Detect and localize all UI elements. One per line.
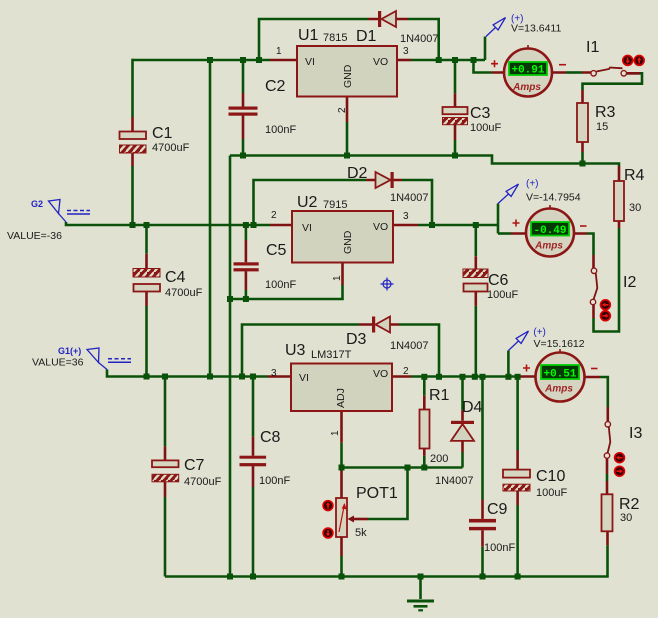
capacitor C3 100uF electrolytic — [443, 105, 502, 134]
svg-text:3: 3 — [403, 211, 409, 222]
wire ground rail y=576.5 — [165, 545, 608, 576]
wire U2 gnd rail y=299 — [230, 285, 343, 299]
svg-text:R1: R1 — [429, 387, 450, 404]
capacitor C2 100nF — [229, 78, 297, 136]
pin I1 leads — [582, 71, 640, 74]
pin U2 GND 1 — [341, 263, 344, 286]
capacitor C10 100uF electrolytic — [503, 468, 567, 499]
pin C7 leads — [164, 446, 167, 497]
svg-text:(+): (+) — [526, 179, 539, 190]
wire C2 top stub — [242, 60, 245, 93]
svg-text:4700uF: 4700uF — [184, 476, 222, 488]
svg-text:Amps: Amps — [534, 241, 563, 252]
svg-text:100uF: 100uF — [470, 122, 501, 134]
svg-text:C5: C5 — [266, 242, 287, 259]
wire C3 column lower — [454, 140, 457, 156]
svg-text:ADJ: ADJ — [335, 388, 347, 408]
pin U3 VO 2 — [392, 375, 411, 378]
wire C9 column lower — [481, 547, 484, 577]
resistor R2 30 — [602, 494, 640, 531]
wire C1 column lower — [131, 166, 134, 225]
svg-text:R3: R3 — [595, 104, 616, 121]
wire A2 plus side — [498, 232, 511, 235]
wire C10 column lower — [516, 505, 519, 577]
svg-text:VI: VI — [299, 372, 309, 384]
svg-text:R2: R2 — [619, 496, 640, 513]
wire A3 minus to I3 — [600, 377, 608, 407]
wire C9 column upper — [481, 379, 484, 500]
resistor R1 200 — [420, 387, 450, 465]
svg-text:POT1: POT1 — [356, 485, 398, 502]
regulator U1 7815 body — [276, 27, 409, 113]
pin U1 VO 3 — [397, 59, 411, 62]
wire G1 input rail y=376.5 — [107, 370, 268, 377]
node junctions y=225 — [130, 222, 136, 228]
origin marker — [381, 278, 394, 291]
svg-text:+0.51: +0.51 — [543, 368, 576, 380]
svg-text:VI: VI — [305, 56, 315, 68]
svg-text:LM317T: LM317T — [311, 349, 352, 361]
wire C1 top stub — [131, 59, 134, 117]
wire U3 output node y=376.5 — [411, 375, 520, 378]
wire I3 to R2 gap — [606, 474, 609, 481]
pin D1 leads — [368, 18, 408, 21]
pin R3 leads — [581, 90, 584, 152]
wire probe1 stem — [484, 37, 487, 61]
svg-text:U1: U1 — [298, 27, 319, 44]
wire C7 column upper — [164, 377, 167, 447]
capacitor C5 100nF — [234, 242, 297, 291]
diode D1 1N4007 — [356, 11, 439, 45]
pin A2 leads — [511, 232, 587, 235]
svg-text:VI: VI — [302, 222, 312, 234]
wire C7 column lower to rail — [164, 497, 167, 577]
svg-text:1N4007: 1N4007 — [390, 192, 429, 204]
pin I3 leads — [606, 407, 609, 474]
wire D2 right column — [402, 180, 432, 225]
svg-text:VALUE=-36: VALUE=-36 — [7, 230, 62, 242]
ammeter A3 — [523, 349, 598, 402]
pin C8 leads — [252, 437, 255, 487]
wire C8 column upper — [252, 377, 255, 437]
svg-text:VO: VO — [373, 368, 388, 380]
wire ADJ node y=467.5 — [342, 466, 463, 469]
svg-text:C4: C4 — [165, 269, 186, 286]
switch I2 — [590, 268, 636, 321]
svg-text:D1: D1 — [356, 28, 377, 45]
wire +36V input rail y=60 — [133, 59, 271, 62]
svg-text:3: 3 — [271, 368, 277, 379]
svg-text:C2: C2 — [265, 78, 286, 95]
capacitor C8 100nF — [240, 429, 291, 487]
resistor R4 30 — [614, 167, 645, 221]
capacitor C4 4700uF electrolytic — [133, 269, 203, 300]
pin D2 leads — [366, 179, 402, 182]
wire D1 right branch — [408, 19, 439, 60]
svg-text:Amps: Amps — [544, 384, 573, 395]
pin C1 leads — [131, 117, 134, 166]
pin D4 leads — [461, 410, 464, 452]
svg-text:C1: C1 — [152, 125, 173, 142]
svg-text:1N4007: 1N4007 — [390, 340, 429, 352]
pin C10 leads — [516, 450, 519, 505]
svg-text:2: 2 — [403, 366, 409, 377]
wire G2 input rail y=225 — [66, 222, 270, 225]
wire C2 column lower — [242, 139, 245, 156]
svg-text:U2: U2 — [297, 194, 318, 211]
svg-text:100uF: 100uF — [536, 487, 567, 499]
svg-text:I3: I3 — [629, 425, 642, 442]
wire C4 column upper — [145, 225, 148, 254]
svg-text:100nF: 100nF — [259, 475, 290, 487]
wire C5 column upper — [245, 225, 248, 240]
svg-text:1N4007: 1N4007 — [400, 33, 439, 45]
svg-text:C3: C3 — [470, 105, 491, 122]
pin C3 leads — [454, 93, 457, 140]
wire R3 bottom — [581, 152, 584, 164]
wire probe3 stem — [507, 351, 510, 377]
svg-text:4700uF: 4700uF — [165, 287, 203, 299]
svg-text:2: 2 — [337, 107, 348, 113]
node junctions ground rail y=576.5 — [227, 574, 233, 580]
svg-text:C8: C8 — [260, 429, 281, 446]
svg-text:1: 1 — [330, 430, 341, 436]
wire D3 right column — [399, 325, 439, 377]
svg-text:5k: 5k — [355, 527, 367, 539]
wire U1 GND pin lower — [346, 122, 349, 156]
pin C9 leads — [481, 500, 484, 547]
svg-text:C9: C9 — [487, 501, 508, 518]
svg-text:1: 1 — [332, 275, 343, 281]
svg-text:G2: G2 — [31, 199, 43, 209]
svg-text:7815: 7815 — [323, 32, 347, 44]
node junctions y=376.5 — [144, 374, 150, 380]
wire D4 column lower — [461, 452, 464, 468]
svg-text:D4: D4 — [462, 399, 483, 416]
svg-text:30: 30 — [620, 512, 632, 524]
svg-text:(+): (+) — [533, 327, 546, 338]
capacitor C7 4700uF electrolytic — [152, 457, 222, 488]
ground symbol — [407, 601, 434, 610]
dc generator G1 — [32, 346, 131, 370]
wire R4 bottom to I2 — [594, 228, 620, 332]
svg-text:15: 15 — [596, 121, 608, 133]
wire D4 column upper — [461, 377, 464, 411]
pin U1 VI 1 — [270, 59, 297, 62]
svg-text:D3: D3 — [346, 331, 367, 348]
pin C2 leads — [242, 93, 245, 139]
svg-text:2: 2 — [271, 210, 277, 221]
wire D1 left branch — [259, 19, 368, 60]
svg-text:4700uF: 4700uF — [152, 142, 190, 154]
wire U1 output node y=60 — [411, 59, 485, 62]
svg-text:+0.91: +0.91 — [511, 65, 544, 77]
wire C8 column lower — [252, 487, 255, 577]
pin U1 GND 2 — [346, 97, 349, 123]
wire I2 top to A2 — [587, 234, 594, 256]
svg-text:U3: U3 — [285, 342, 306, 359]
capacitor C9 100nF — [469, 501, 515, 554]
svg-text:GND: GND — [342, 230, 354, 254]
wire C6 column lower — [474, 306, 477, 377]
pin R1 leads — [423, 396, 426, 456]
svg-text:I2: I2 — [623, 274, 636, 291]
svg-text:VALUE=36: VALUE=36 — [32, 357, 84, 369]
PINS (dark red) — [133, 19, 640, 556]
wire into ammeter A1 — [474, 60, 492, 73]
voltage probe 3 — [508, 327, 584, 351]
svg-text:30: 30 — [629, 202, 641, 214]
wire C4 column lower — [145, 306, 148, 377]
wire R1 column upper — [423, 377, 426, 396]
wire A1 switch to R3 — [566, 71, 582, 74]
voltage probe 2 — [498, 179, 581, 204]
svg-text:VO: VO — [373, 221, 388, 233]
wire x=210 rail (+36V down to G1 line) — [209, 60, 212, 377]
pin POT1 leads — [340, 470, 343, 556]
pin U3 ADJ 1 — [340, 411, 343, 443]
wire C10 column upper — [516, 379, 519, 450]
wire ground symbol stem — [419, 577, 422, 600]
regulator U3 LM317T body — [271, 342, 409, 436]
pin C4 leads — [145, 254, 148, 306]
svg-text:V=13.6411: V=13.6411 — [511, 23, 561, 35]
node junctions y=467.5 — [339, 465, 345, 471]
wire U3 ADJ pin lower — [340, 443, 343, 470]
svg-text:1N4007: 1N4007 — [435, 475, 474, 487]
diode D2 1N4007 — [347, 165, 429, 204]
diode D3 1N4007 — [346, 317, 429, 353]
svg-text:VO: VO — [373, 56, 388, 68]
pin A1 leads — [492, 71, 567, 74]
pin POT1 wiper lead — [353, 518, 368, 521]
wire POT1 wiper run — [368, 468, 408, 520]
wire x=230 rail (mid to ground) — [229, 156, 232, 577]
svg-text:100uF: 100uF — [487, 289, 518, 301]
pin R4 leads — [618, 166, 621, 228]
pin U3 VI 3 — [268, 375, 292, 378]
svg-text:1: 1 — [276, 46, 282, 57]
svg-text:200: 200 — [430, 453, 448, 465]
pin C5 leads — [245, 240, 248, 290]
wire I1 to R3 top — [583, 73, 643, 90]
wire POT1 bottom to rail — [340, 556, 343, 577]
node junctions y=299 — [227, 296, 233, 302]
pin C6 leads — [474, 256, 477, 306]
capacitor C6 100uF electrolytic — [463, 269, 518, 301]
node junctions y=60 — [207, 57, 213, 63]
node junction R3 bottom — [580, 161, 586, 167]
wire C6 column upper — [474, 225, 477, 256]
potentiometer POT1 5k — [323, 485, 398, 539]
dc generator G2 — [7, 199, 90, 242]
svg-text:Amps: Amps — [512, 82, 541, 93]
switch I3 — [604, 422, 642, 477]
svg-text:V=15.1612: V=15.1612 — [534, 338, 585, 350]
svg-text:7915: 7915 — [323, 199, 347, 211]
pin I2 leads — [592, 255, 595, 318]
wire D2 left column — [254, 180, 367, 225]
svg-text:I1: I1 — [586, 39, 599, 56]
svg-text:C10: C10 — [536, 468, 565, 485]
wire C5 column lower — [245, 290, 248, 299]
svg-text:D2: D2 — [347, 165, 368, 182]
diode D4 1N4007 — [435, 399, 483, 487]
svg-text:C7: C7 — [184, 457, 205, 474]
svg-text:100nF: 100nF — [265, 124, 296, 136]
svg-text:R4: R4 — [624, 167, 645, 184]
svg-text:3: 3 — [403, 46, 409, 57]
svg-text:-0.49: -0.49 — [533, 225, 566, 237]
pin R2 leads — [606, 481, 609, 545]
wire R1 column lower — [423, 456, 426, 468]
ammeter A1 — [491, 45, 566, 97]
svg-text:100nF: 100nF — [265, 279, 296, 291]
capacitor C1 4700uF electrolytic — [120, 125, 190, 154]
regulator U2 7915 body — [271, 194, 409, 281]
pin A3 leads — [520, 375, 600, 378]
switch I1 — [586, 39, 644, 76]
svg-text:GND: GND — [342, 64, 354, 88]
svg-text:G1(+): G1(+) — [58, 346, 81, 356]
wire probe2 stem — [497, 204, 500, 234]
svg-text:C6: C6 — [488, 272, 509, 289]
wire U2 output node y=225 — [418, 224, 498, 227]
wire mid rail y=155.5 with jog — [230, 156, 619, 167]
wire D3 left column — [242, 325, 359, 377]
svg-text:100nF: 100nF — [484, 542, 515, 554]
pin D3 leads — [359, 323, 399, 326]
ammeter A2 — [513, 205, 587, 257]
wire C3 column upper — [454, 60, 457, 93]
node junctions y=155.5 — [240, 153, 246, 159]
resistor R3 15 — [577, 103, 616, 142]
pin U2 VI 2 — [270, 224, 292, 227]
svg-text:V=-14.7954: V=-14.7954 — [526, 192, 581, 204]
voltage probe 1 — [486, 14, 561, 37]
pin U2 VO 3 — [393, 224, 418, 227]
